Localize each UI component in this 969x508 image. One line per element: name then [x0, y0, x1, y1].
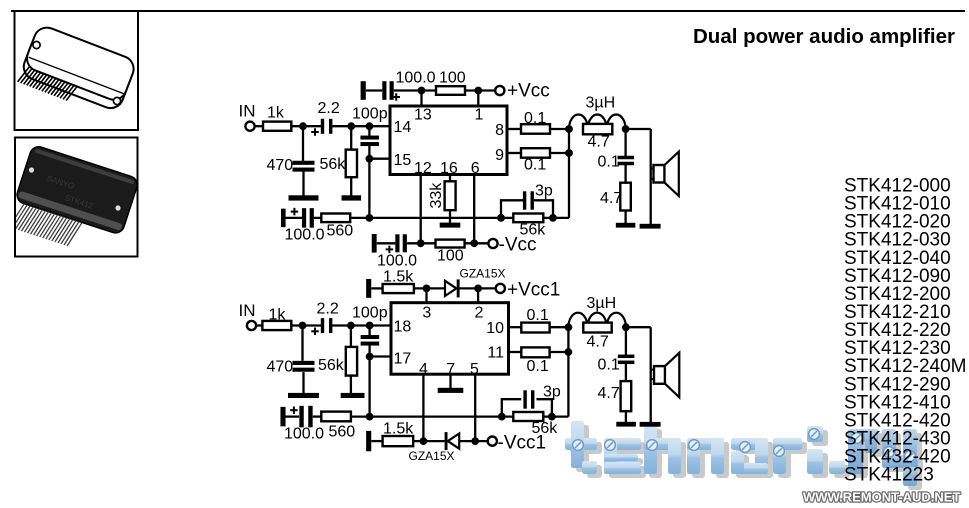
svg-text:+Vcc: +Vcc — [507, 81, 550, 102]
svg-text:0.1: 0.1 — [527, 307, 549, 324]
svg-text:18: 18 — [394, 318, 412, 335]
svg-text:0.1: 0.1 — [598, 357, 620, 374]
svg-text:1: 1 — [475, 107, 484, 124]
svg-text:7: 7 — [446, 361, 455, 378]
svg-text:2: 2 — [475, 305, 484, 322]
svg-text:56k: 56k — [532, 420, 559, 437]
svg-text:14: 14 — [394, 119, 412, 136]
svg-text:470: 470 — [267, 157, 294, 174]
svg-text:10: 10 — [486, 320, 504, 337]
svg-text:56k: 56k — [320, 156, 347, 173]
svg-text:56k: 56k — [520, 222, 547, 239]
svg-text:WWW.REMONT-AUD.NET: WWW.REMONT-AUD.NET — [803, 490, 960, 505]
svg-text:+Vcc1: +Vcc1 — [507, 280, 560, 301]
svg-text:1.5k: 1.5k — [383, 269, 414, 286]
svg-text:100p: 100p — [352, 305, 388, 322]
svg-text:4.7: 4.7 — [587, 334, 609, 351]
svg-text:1k: 1k — [269, 307, 287, 324]
svg-text:5: 5 — [470, 361, 479, 378]
svg-text:3p: 3p — [535, 183, 553, 200]
svg-text:2.2: 2.2 — [317, 301, 339, 318]
svg-text:Dual power audio amplifier: Dual power audio amplifier — [693, 25, 955, 48]
svg-text:3µH: 3µH — [586, 95, 616, 112]
svg-text:3: 3 — [422, 305, 431, 322]
svg-text:IN: IN — [239, 102, 256, 121]
svg-text:100: 100 — [437, 248, 464, 265]
svg-text:9: 9 — [495, 147, 504, 164]
svg-text:IN: IN — [239, 301, 256, 320]
svg-text:STK41223: STK41223 — [844, 465, 934, 486]
svg-text:100.0: 100.0 — [377, 253, 417, 270]
svg-text:4.7: 4.7 — [600, 190, 622, 207]
svg-text:100.0: 100.0 — [396, 70, 436, 87]
svg-text:100p: 100p — [352, 106, 388, 123]
svg-text:100.0: 100.0 — [285, 227, 325, 244]
svg-text:100.0: 100.0 — [284, 426, 324, 443]
svg-text:560: 560 — [327, 223, 354, 240]
svg-text:3p: 3p — [543, 384, 561, 401]
svg-text:560: 560 — [329, 424, 356, 441]
svg-text:6: 6 — [471, 160, 480, 177]
svg-text:15: 15 — [394, 152, 412, 169]
svg-text:0.1: 0.1 — [527, 358, 549, 375]
svg-text:3µH: 3µH — [587, 295, 617, 312]
svg-text:4: 4 — [419, 361, 428, 378]
svg-text:1k: 1k — [267, 105, 285, 122]
svg-text:2.2: 2.2 — [318, 100, 340, 117]
svg-text:4.7: 4.7 — [598, 385, 620, 402]
svg-text:1.5k: 1.5k — [383, 421, 414, 438]
svg-text:56k: 56k — [318, 357, 345, 374]
svg-text:17: 17 — [394, 351, 412, 368]
svg-text:0.1: 0.1 — [524, 110, 546, 127]
svg-text:11: 11 — [487, 345, 504, 362]
svg-text:13: 13 — [414, 107, 432, 124]
svg-text:12: 12 — [414, 160, 432, 177]
svg-text:GZA15X: GZA15X — [460, 267, 506, 281]
svg-text:100: 100 — [439, 70, 466, 87]
svg-text:8: 8 — [495, 122, 504, 139]
svg-text:GZA15X: GZA15X — [409, 449, 455, 463]
svg-text:4.7: 4.7 — [588, 134, 610, 151]
svg-text:0.1: 0.1 — [524, 157, 546, 174]
svg-text:16: 16 — [440, 160, 458, 177]
svg-text:0.1: 0.1 — [598, 154, 620, 171]
svg-text:470: 470 — [267, 359, 294, 376]
svg-text:33k: 33k — [428, 182, 445, 209]
